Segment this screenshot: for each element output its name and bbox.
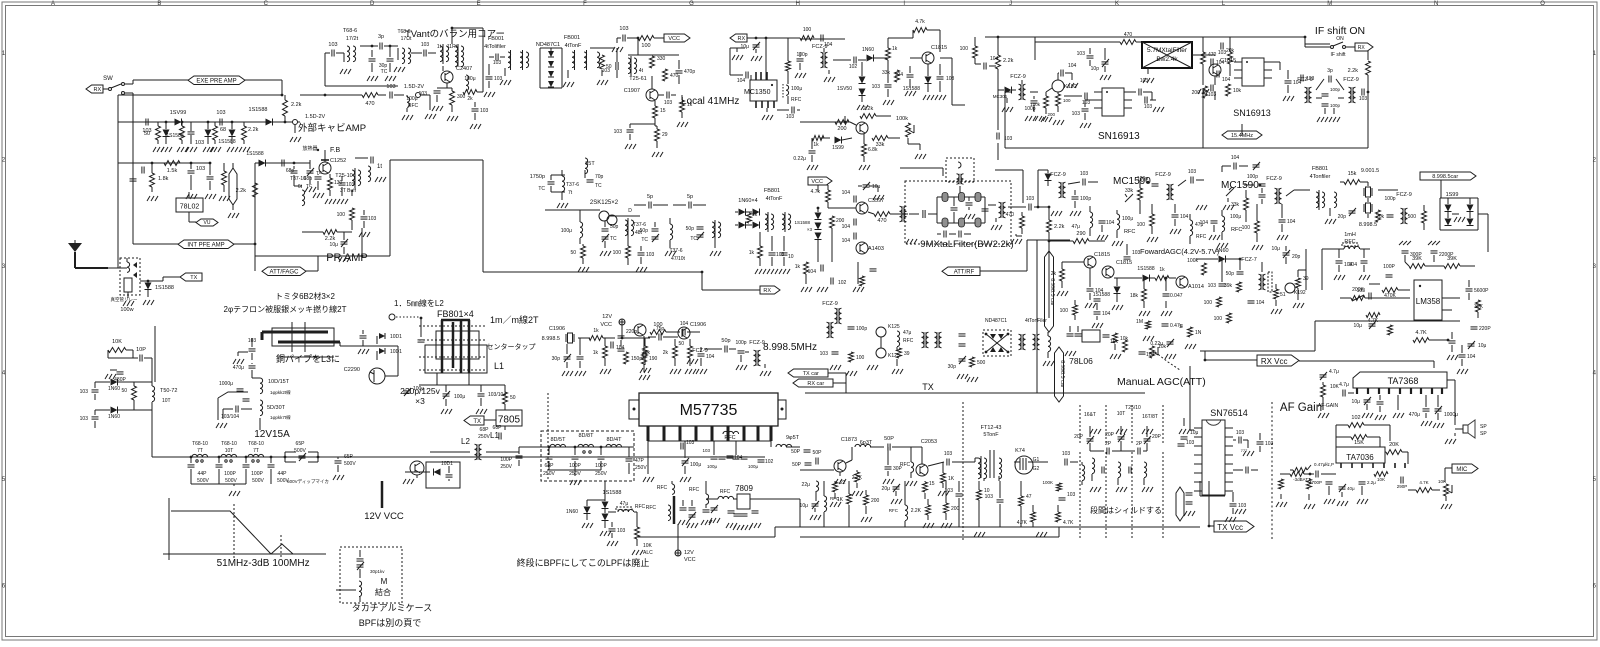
svg-text:100P: 100P xyxy=(1383,264,1395,270)
svg-text:1t: 1t xyxy=(377,164,382,170)
svg-text:EXE PRE AMP: EXE PRE AMP xyxy=(196,79,236,85)
svg-text:15: 15 xyxy=(929,481,935,487)
svg-text:100p: 100p xyxy=(1330,87,1341,92)
svg-text:9φ5T: 9φ5T xyxy=(786,435,800,441)
svg-text:T37-6: T37-6 xyxy=(566,182,579,188)
svg-text:ON: ON xyxy=(1336,36,1344,42)
svg-text:100P: 100P xyxy=(224,471,236,477)
svg-text:100μ: 100μ xyxy=(791,86,802,92)
svg-text:FB001: FB001 xyxy=(488,36,504,42)
svg-text:FCZ-9: FCZ-9 xyxy=(1297,77,1313,83)
svg-text:C2053: C2053 xyxy=(921,439,937,445)
svg-text:103: 103 xyxy=(1208,283,1217,289)
svg-text:47/10t: 47/10t xyxy=(671,256,686,262)
svg-text:100μ: 100μ xyxy=(748,464,759,469)
svg-text:104: 104 xyxy=(1068,63,1077,69)
svg-text:100: 100 xyxy=(1214,316,1223,322)
svg-text:103: 103 xyxy=(1080,171,1089,177)
svg-text:2k: 2k xyxy=(663,350,669,356)
svg-text:500V: 500V xyxy=(225,478,237,484)
svg-text:100p: 100p xyxy=(1137,176,1148,182)
svg-text:250V: 250V xyxy=(635,465,647,471)
svg-text:VU: VU xyxy=(204,220,211,226)
svg-text:1M: 1M xyxy=(1136,319,1143,325)
svg-text:8D/8T: 8D/8T xyxy=(579,433,595,439)
svg-text:TC: TC xyxy=(610,236,617,242)
svg-text:50: 50 xyxy=(678,341,684,347)
svg-text:0.47μ㎐,P: 0.47μ㎐,P xyxy=(1314,462,1334,467)
svg-text:2SK125×2: 2SK125×2 xyxy=(590,200,619,206)
svg-text:1k: 1k xyxy=(892,46,898,52)
svg-text:104: 104 xyxy=(842,238,851,244)
svg-text:C1873: C1873 xyxy=(841,437,857,443)
svg-text:100μ: 100μ xyxy=(454,394,465,400)
svg-text:16T/8T: 16T/8T xyxy=(1142,414,1158,420)
svg-text:12V: 12V xyxy=(684,550,694,556)
svg-text:2.2K: 2.2K xyxy=(911,508,922,514)
svg-text:1S1588: 1S1588 xyxy=(1137,266,1154,272)
svg-text:D: D xyxy=(370,1,375,7)
svg-text:500V: 500V xyxy=(252,478,264,484)
svg-text:FCZ-9: FCZ-9 xyxy=(1396,192,1412,198)
svg-text:103: 103 xyxy=(820,351,829,357)
svg-text:68: 68 xyxy=(220,127,226,133)
svg-text:真空管リレー: 真空管リレー xyxy=(111,296,138,303)
svg-text:20k: 20k xyxy=(1376,214,1385,220)
svg-text:200: 200 xyxy=(871,498,880,504)
svg-text:1SV99: 1SV99 xyxy=(170,110,187,116)
svg-text:3T Buff: 3T Buff xyxy=(340,188,357,194)
svg-text:70p: 70p xyxy=(595,174,604,180)
svg-text:FCZ-9: FCZ-9 xyxy=(1155,172,1171,178)
svg-text:500: 500 xyxy=(1408,214,1417,220)
svg-text:102: 102 xyxy=(849,64,858,70)
svg-text:4.7K: 4.7K xyxy=(1419,480,1428,485)
svg-text:103: 103 xyxy=(1072,111,1081,117)
svg-text:1K: 1K xyxy=(837,497,844,503)
svg-text:1k: 1k xyxy=(752,212,758,218)
svg-text:1S1588: 1S1588 xyxy=(794,220,810,225)
svg-text:190: 190 xyxy=(649,356,658,362)
svg-text:78L02: 78L02 xyxy=(180,204,200,211)
svg-text:17Ωt: 17Ωt xyxy=(401,36,412,42)
svg-text:100P: 100P xyxy=(595,463,607,469)
svg-text:15: 15 xyxy=(660,108,666,114)
svg-text:C1815: C1815 xyxy=(1094,252,1110,258)
svg-text:39K: 39K xyxy=(1447,256,1457,262)
svg-text:100μ: 100μ xyxy=(1230,214,1241,220)
svg-text:8.998.5 car: 8.998.5 car xyxy=(1059,360,1065,388)
svg-text:102: 102 xyxy=(765,459,774,465)
svg-text:44P: 44P xyxy=(198,471,208,477)
svg-text:16&T: 16&T xyxy=(1084,412,1096,418)
svg-text:50P: 50P xyxy=(884,436,894,442)
svg-text:1t: 1t xyxy=(437,44,442,50)
svg-text:100k: 100k xyxy=(1030,102,1041,107)
svg-text:Local 41MHz: Local 41MHz xyxy=(681,96,739,107)
svg-text:4.7μ: 4.7μ xyxy=(1339,382,1349,388)
svg-text:1.8k: 1.8k xyxy=(158,176,169,182)
svg-text:7809: 7809 xyxy=(735,484,753,493)
svg-text:15k: 15k xyxy=(1348,171,1357,177)
svg-text:103: 103 xyxy=(1144,104,1153,110)
svg-text:50P: 50P xyxy=(791,449,801,455)
svg-text:103: 103 xyxy=(602,68,611,74)
svg-text:2.2k: 2.2k xyxy=(863,106,874,112)
svg-text:A1014: A1014 xyxy=(1188,284,1204,290)
svg-text:1000μ: 1000μ xyxy=(1444,412,1458,418)
svg-text:T25-61: T25-61 xyxy=(629,76,646,82)
svg-text:2P: 2P xyxy=(1105,441,1112,447)
svg-text:18k: 18k xyxy=(1130,293,1139,299)
svg-text:1mH: 1mH xyxy=(1344,232,1356,238)
svg-text:470: 470 xyxy=(365,101,374,107)
svg-text:1000μ: 1000μ xyxy=(219,381,233,387)
svg-text:FowardAGC(4.2V-5.7V): FowardAGC(4.2V-5.7V) xyxy=(1140,247,1220,256)
svg-text:65P: 65P xyxy=(296,441,306,447)
svg-text:C1815: C1815 xyxy=(931,45,947,51)
svg-text:1N: 1N xyxy=(1195,330,1202,336)
svg-text:10K: 10K xyxy=(643,543,653,549)
svg-text:RX: RX xyxy=(737,36,745,42)
svg-text:103: 103 xyxy=(421,42,430,48)
svg-text:103: 103 xyxy=(1218,50,1227,56)
svg-text:3p: 3p xyxy=(378,34,384,40)
svg-text:K192: K192 xyxy=(1064,84,1077,90)
svg-text:250V: 250V xyxy=(500,464,512,470)
svg-text:103: 103 xyxy=(494,76,503,82)
svg-text:1φpkk7t線: 1φpkk7t線 xyxy=(270,414,291,420)
svg-text:2.2k: 2.2k xyxy=(1003,58,1014,64)
svg-text:20μ: 20μ xyxy=(882,486,891,492)
svg-text:INT PFE AMP: INT PFE AMP xyxy=(187,243,224,249)
svg-text:O: O xyxy=(1540,1,1545,7)
svg-text:220P: 220P xyxy=(1479,326,1491,332)
svg-text:0.22μ: 0.22μ xyxy=(1150,341,1163,347)
svg-text:12V15A: 12V15A xyxy=(254,429,290,440)
svg-text:104: 104 xyxy=(990,56,999,62)
svg-text:22μ: 22μ xyxy=(802,482,811,488)
svg-text:2.2k: 2.2k xyxy=(248,127,259,133)
svg-text:1N60: 1N60 xyxy=(108,414,120,420)
svg-text:ATT/RF: ATT/RF xyxy=(954,270,975,276)
svg-text:103: 103 xyxy=(702,448,710,453)
svg-text:102: 102 xyxy=(838,280,847,286)
svg-text:9MXtaLFilter(BW2.2k): 9MXtaLFilter(BW2.2k) xyxy=(920,239,1013,250)
svg-text:100K: 100K xyxy=(1042,480,1053,485)
svg-text:68P: 68P xyxy=(545,463,555,469)
svg-text:100μ: 100μ xyxy=(413,386,424,392)
svg-text:103: 103 xyxy=(216,110,225,116)
svg-text:1N60: 1N60 xyxy=(566,509,578,515)
svg-text:C1906: C1906 xyxy=(549,326,565,332)
svg-text:10D1: 10D1 xyxy=(390,334,402,340)
svg-text:TX car: TX car xyxy=(803,371,819,377)
svg-text:L2: L2 xyxy=(461,437,470,446)
svg-text:1S1588: 1S1588 xyxy=(1093,292,1110,298)
svg-text:5.7MXtalFilter: 5.7MXtalFilter xyxy=(1147,47,1188,54)
svg-text:A: A xyxy=(51,1,55,7)
svg-text:51MHz-3dB: 51MHz-3dB xyxy=(217,558,270,569)
svg-text:103/104: 103/104 xyxy=(221,414,239,420)
svg-text:50: 50 xyxy=(570,250,576,256)
svg-text:T50-72: T50-72 xyxy=(160,388,177,394)
svg-text:1S1588: 1S1588 xyxy=(166,133,183,139)
svg-text:A1403: A1403 xyxy=(868,246,884,252)
svg-text:K: K xyxy=(1115,1,1119,7)
svg-text:200: 200 xyxy=(1047,112,1055,117)
svg-text:20p: 20p xyxy=(1338,214,1347,220)
svg-text:RFC: RFC xyxy=(1196,234,1207,240)
svg-text:1k: 1k xyxy=(749,250,755,256)
svg-text:G2: G2 xyxy=(1033,466,1040,472)
svg-text:6t: 6t xyxy=(298,184,303,190)
svg-text:9.001.5: 9.001.5 xyxy=(1361,168,1379,174)
svg-text:103: 103 xyxy=(480,108,489,114)
svg-text:1．5㎜線をL2: 1．5㎜線をL2 xyxy=(394,298,444,308)
svg-text:MC1350: MC1350 xyxy=(744,89,771,96)
svg-text:K74: K74 xyxy=(1015,448,1025,454)
svg-text:S: S xyxy=(1179,324,1183,330)
svg-text:10μ: 10μ xyxy=(330,242,339,248)
svg-text:100p: 100p xyxy=(1247,174,1258,180)
svg-text:10T: 10T xyxy=(1117,411,1126,417)
svg-text:103: 103 xyxy=(1359,96,1368,102)
svg-text:5p: 5p xyxy=(647,194,653,200)
svg-text:1k: 1k xyxy=(795,264,801,270)
svg-text:TC: TC xyxy=(381,69,388,75)
svg-text:10μ: 10μ xyxy=(1478,343,1487,349)
svg-text:VCC: VCC xyxy=(668,36,680,42)
svg-text:103: 103 xyxy=(328,42,337,48)
svg-text:330: 330 xyxy=(657,56,666,62)
svg-text:39: 39 xyxy=(904,351,910,357)
svg-text:FB801: FB801 xyxy=(1312,166,1328,172)
svg-text:470: 470 xyxy=(877,218,886,224)
svg-text:10μ: 10μ xyxy=(1272,246,1281,252)
svg-text:103: 103 xyxy=(196,166,205,172)
svg-text:B: B xyxy=(157,1,161,7)
svg-text:15.4MHz: 15.4MHz xyxy=(1231,133,1253,139)
svg-text:段間はシィルドする: 段間はシィルドする xyxy=(1090,505,1162,515)
svg-text:100: 100 xyxy=(613,250,622,256)
svg-text:103: 103 xyxy=(1146,352,1155,358)
svg-text:250V: 250V xyxy=(595,471,607,477)
svg-text:T25-10: T25-10 xyxy=(335,173,352,179)
svg-text:104: 104 xyxy=(1216,60,1225,66)
svg-text:T25/10: T25/10 xyxy=(1125,405,1141,411)
svg-text:3p: 3p xyxy=(1327,68,1333,74)
svg-text:10T: 10T xyxy=(162,398,171,404)
svg-text:220p: 220p xyxy=(626,329,637,335)
svg-text:TX: TX xyxy=(922,382,934,392)
svg-text:1S1588: 1S1588 xyxy=(218,139,235,145)
svg-text:100μ: 100μ xyxy=(1122,216,1133,222)
svg-text:10μ: 10μ xyxy=(1352,399,1361,405)
svg-text:100p: 100p xyxy=(1080,196,1091,202)
svg-text:104: 104 xyxy=(1287,219,1296,225)
svg-text:103: 103 xyxy=(944,451,953,457)
svg-text:100μ: 100μ xyxy=(690,462,701,468)
svg-text:1m／m線2T: 1m／m線2T xyxy=(490,314,539,325)
svg-text:5p: 5p xyxy=(687,194,693,200)
svg-text:M: M xyxy=(1327,1,1332,7)
svg-text:10μ: 10μ xyxy=(1354,323,1363,329)
svg-text:RFC: RFC xyxy=(689,487,700,493)
svg-text:L1: L1 xyxy=(490,431,499,440)
svg-text:104: 104 xyxy=(734,455,743,461)
svg-text:ND487C1: ND487C1 xyxy=(536,42,560,48)
svg-text:1.5D-2V: 1.5D-2V xyxy=(305,114,326,120)
svg-text:290P: 290P xyxy=(1397,484,1408,489)
svg-text:103: 103 xyxy=(195,140,204,146)
svg-text:50p: 50p xyxy=(640,228,649,234)
svg-text:22: 22 xyxy=(840,480,846,486)
svg-text:5D/30T: 5D/30T xyxy=(267,405,286,411)
svg-text:50p: 50p xyxy=(610,224,619,230)
svg-text:TX Vcc: TX Vcc xyxy=(1217,523,1243,532)
svg-text:C1815: C1815 xyxy=(1116,260,1132,266)
svg-text:VCC: VCC xyxy=(684,557,696,563)
svg-text:103: 103 xyxy=(786,114,795,120)
svg-text:J: J xyxy=(1009,1,1012,7)
svg-text:104: 104 xyxy=(842,190,851,196)
svg-text:103: 103 xyxy=(1188,169,1197,175)
svg-text:1S1588: 1S1588 xyxy=(903,86,920,92)
svg-text:104: 104 xyxy=(737,78,746,84)
svg-text:470: 470 xyxy=(1006,212,1015,218)
svg-text:10μ: 10μ xyxy=(800,503,809,509)
svg-text:RFC: RFC xyxy=(635,504,646,510)
svg-text:11Rt: 11Rt xyxy=(447,44,458,50)
svg-text:FB801×4: FB801×4 xyxy=(437,309,474,319)
svg-text:29: 29 xyxy=(662,132,668,138)
svg-text:C3597: C3597 xyxy=(868,198,884,204)
svg-text:L1: L1 xyxy=(494,361,504,371)
svg-text:AF Gain: AF Gain xyxy=(1280,402,1322,414)
svg-text:ManuaL AGC(ATT): ManuaL AGC(ATT) xyxy=(1117,376,1206,388)
svg-text:250V: 250V xyxy=(478,434,490,440)
svg-text:51: 51 xyxy=(1280,292,1286,298)
svg-text:68P: 68P xyxy=(493,425,503,431)
svg-text:C1252: C1252 xyxy=(330,158,346,164)
svg-text:100MHz: 100MHz xyxy=(272,558,309,569)
svg-text:104: 104 xyxy=(1102,311,1111,317)
svg-text:RX: RX xyxy=(93,87,101,93)
svg-text:1S99: 1S99 xyxy=(832,145,844,151)
svg-text:200: 200 xyxy=(951,506,960,512)
svg-text:FT12-43: FT12-43 xyxy=(981,425,1002,431)
svg-text:8.998.5 car: 8.998.5 car xyxy=(1049,278,1055,306)
svg-text:39K: 39K xyxy=(1474,304,1484,310)
svg-text:10μ: 10μ xyxy=(741,44,750,50)
svg-text:7t: 7t xyxy=(568,190,573,196)
svg-text:10p: 10p xyxy=(1091,66,1100,72)
svg-text:4tTonF: 4tTonF xyxy=(766,196,783,202)
svg-text:30p: 30p xyxy=(948,364,957,370)
svg-text:FCZ-9: FCZ-9 xyxy=(822,301,838,307)
svg-text:FCZ-9: FCZ-9 xyxy=(1343,77,1359,83)
svg-text:104: 104 xyxy=(842,224,851,230)
svg-text:50: 50 xyxy=(144,131,150,137)
svg-text:8D/5T: 8D/5T xyxy=(551,437,567,443)
svg-text:1N60: 1N60 xyxy=(862,47,874,53)
svg-text:T68-6: T68-6 xyxy=(343,28,357,34)
svg-text:777: 777 xyxy=(1241,448,1248,453)
svg-text:RFC: RFC xyxy=(646,505,657,511)
svg-text:8D/4T: 8D/4T xyxy=(607,437,623,443)
svg-text:RFC: RFC xyxy=(724,435,735,441)
svg-text:FB801: FB801 xyxy=(764,188,780,194)
svg-text:104: 104 xyxy=(1256,300,1265,306)
svg-text:外部キャビAMP: 外部キャビAMP xyxy=(298,122,366,134)
svg-text:100: 100 xyxy=(1060,308,1069,314)
svg-text:ALC: ALC xyxy=(643,550,653,556)
svg-text:トミタ6B2材3×2: トミタ6B2材3×2 xyxy=(275,291,335,301)
svg-text:1.5k: 1.5k xyxy=(167,168,178,174)
svg-text:2.2μ: 2.2μ xyxy=(1367,480,1376,485)
svg-text:103: 103 xyxy=(1026,196,1035,202)
svg-text:200K: 200K xyxy=(1352,287,1364,293)
svg-text:T68-10: T68-10 xyxy=(221,441,237,447)
svg-text:30p1kv: 30p1kv xyxy=(370,569,385,574)
svg-text:20P: 20P xyxy=(1152,434,1162,440)
svg-text:50p: 50p xyxy=(721,338,730,344)
svg-text:103: 103 xyxy=(614,129,623,135)
svg-text:1SV50: 1SV50 xyxy=(837,86,852,92)
svg-text:T68-10: T68-10 xyxy=(192,441,208,447)
svg-text:104: 104 xyxy=(680,321,689,327)
svg-text:103: 103 xyxy=(686,440,695,446)
svg-text:4.7k: 4.7k xyxy=(811,189,821,195)
svg-text:4.7K: 4.7K xyxy=(1063,520,1074,526)
svg-text:4Tonfiler: 4Tonfiler xyxy=(1310,174,1331,180)
svg-text:100P: 100P xyxy=(569,463,581,469)
svg-text:104: 104 xyxy=(616,345,625,351)
svg-text:RFC: RFC xyxy=(791,97,802,103)
svg-text:20K: 20K xyxy=(1389,442,1399,448)
svg-text:VCC: VCC xyxy=(811,179,823,185)
svg-text:LM358: LM358 xyxy=(1416,297,1441,306)
svg-text:FCZ-9: FCZ-9 xyxy=(1010,74,1026,80)
svg-text:K125: K125 xyxy=(888,324,900,330)
svg-text:RX Vcc: RX Vcc xyxy=(1261,357,1288,366)
svg-text:103: 103 xyxy=(945,488,954,494)
svg-text:100P: 100P xyxy=(251,471,263,477)
svg-text:2.2k: 2.2k xyxy=(291,102,302,108)
svg-text:×3: ×3 xyxy=(415,396,425,406)
svg-text:44P: 44P xyxy=(278,471,288,477)
svg-text:103: 103 xyxy=(619,26,628,32)
svg-text:TC: TC xyxy=(306,183,313,188)
svg-text:103: 103 xyxy=(80,416,89,422)
svg-text:10D/15T: 10D/15T xyxy=(268,379,290,385)
svg-text:104: 104 xyxy=(1222,77,1231,83)
svg-text:65P: 65P xyxy=(344,454,354,460)
svg-text:4tTonF: 4tTonF xyxy=(565,43,582,49)
svg-text:E: E xyxy=(477,1,481,7)
svg-text:M57735: M57735 xyxy=(680,402,738,419)
svg-text:RX: RX xyxy=(763,288,771,294)
svg-text:20p: 20p xyxy=(1292,254,1301,260)
svg-text:D: D xyxy=(628,208,632,214)
svg-text:1k: 1k xyxy=(593,350,599,356)
svg-text:RFC: RFC xyxy=(657,485,668,491)
svg-text:FCZ-9: FCZ-9 xyxy=(812,44,828,50)
svg-text:10μ: 10μ xyxy=(1190,430,1199,436)
svg-text:250V: 250V xyxy=(543,471,555,477)
svg-text:F.B: F.B xyxy=(330,147,340,154)
